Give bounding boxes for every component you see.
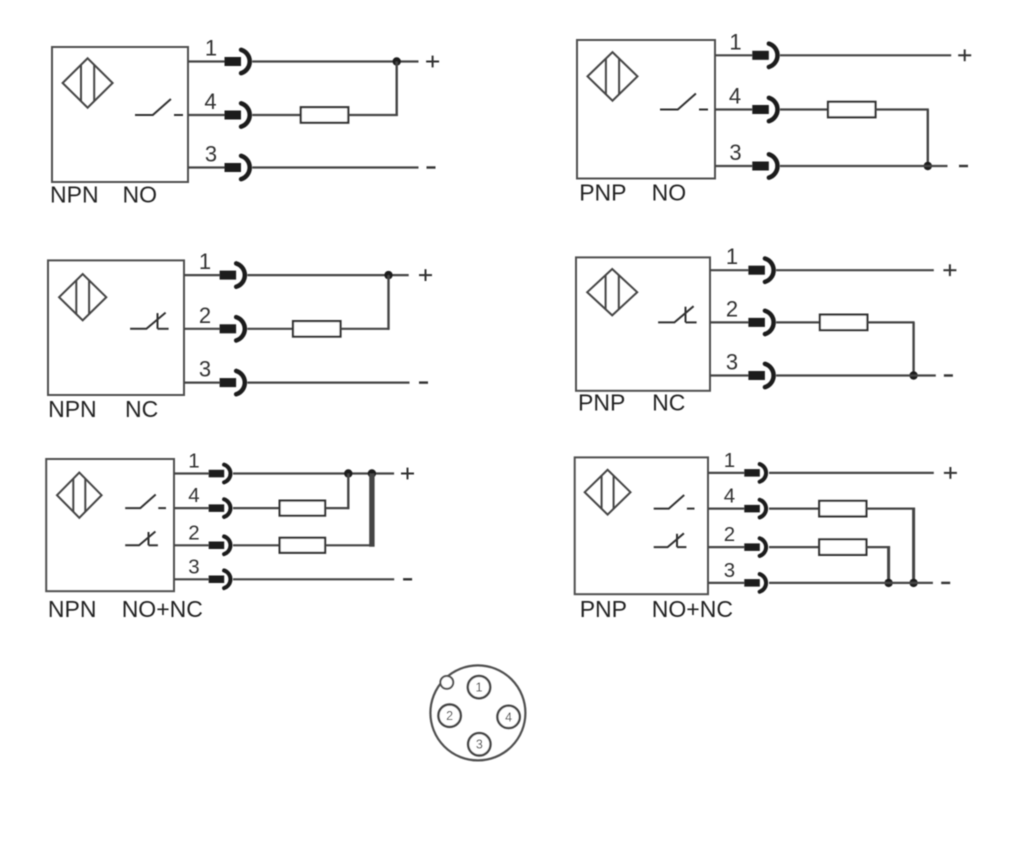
wire pin 4 (U1 output) xyxy=(188,114,225,116)
svg-text:NPN: NPN xyxy=(48,596,97,622)
wire pin 1 (U3 +V) xyxy=(184,274,220,276)
junction node B on wire 1 xyxy=(368,469,376,477)
wire pin 3 (U2 0V) xyxy=(715,165,752,167)
junction node on wire 1 xyxy=(393,57,401,65)
connector plug pin 3 (U1) xyxy=(225,163,242,172)
wire pin 2 (U6 NC output) xyxy=(708,546,744,548)
svg-text:3: 3 xyxy=(729,140,741,165)
- terminal (NPN NC) xyxy=(419,381,428,383)
junction node A on wire 1 xyxy=(344,469,352,477)
- terminal (NPN NO+NC) xyxy=(403,578,412,580)
wire R6 to node B (thick) xyxy=(325,544,372,546)
+ terminal (NPN NO) xyxy=(426,61,439,63)
switch NO S1 xyxy=(135,99,171,115)
sensor box U1 (NPN NO) xyxy=(52,47,188,182)
resistor load R1 xyxy=(301,107,349,123)
+ terminal (PNP NO) xyxy=(958,54,971,56)
proximity sensor symbol U3 xyxy=(59,274,106,320)
svg-text:3: 3 xyxy=(476,738,483,752)
pin 3 of J1 xyxy=(468,733,490,755)
svg-text:NPN: NPN xyxy=(50,182,99,208)
svg-text:1: 1 xyxy=(726,244,738,269)
svg-text:4: 4 xyxy=(729,84,741,109)
connector plug pin 1 (U5) xyxy=(209,470,225,478)
wire pin 1 (U4 +V) xyxy=(710,269,748,271)
wire pin 3 (U6 0V) xyxy=(708,582,744,584)
connector plug pin 3 (U5) xyxy=(209,576,225,584)
svg-text:4: 4 xyxy=(724,485,735,508)
switch NO S6a xyxy=(654,495,685,509)
sensor box U2 (PNP NO) xyxy=(577,40,715,179)
wire pin 4 (U5 NO output) xyxy=(174,507,209,509)
svg-text:3: 3 xyxy=(199,357,211,382)
svg-text:PNP: PNP xyxy=(580,596,627,622)
connector plug pin 4 (U6) xyxy=(744,505,760,513)
wire pin 1 (U1 +V) xyxy=(188,60,225,62)
svg-text:1: 1 xyxy=(476,681,483,695)
connector plug pin 1 (U3) xyxy=(220,271,237,280)
switch NC S5b xyxy=(125,532,155,546)
connector plug pin 2 (U3) xyxy=(220,324,237,333)
pin 2 of J1 xyxy=(438,705,460,727)
connector plug pin 1 (U2) xyxy=(752,51,769,60)
resistor load R5 xyxy=(280,501,326,516)
connector plug pin 3 (U2) xyxy=(752,162,769,171)
wire pin 4 (U2 output) xyxy=(715,108,752,110)
sensor box U4 (PNP NC) xyxy=(576,257,710,390)
svg-text:4: 4 xyxy=(188,484,199,507)
junction node on wire 3 (R8) xyxy=(884,579,892,587)
connector plug pin 4 (U5) xyxy=(209,504,225,512)
resistor load R7 xyxy=(819,501,866,517)
+ terminal (NPN NO+NC) xyxy=(401,473,414,475)
sensor box U6 (PNP NO+NC) xyxy=(575,457,708,594)
- terminal (PNP NC) xyxy=(944,374,953,376)
wire pin 4 (U6 NO output) xyxy=(708,508,744,510)
wire pin 2 (U4 output) xyxy=(710,321,748,323)
svg-text:PNP: PNP xyxy=(578,390,625,416)
svg-text:3: 3 xyxy=(205,142,217,167)
M12 connector face J1 xyxy=(430,665,525,760)
wire R2 to wire 3 xyxy=(876,108,929,110)
svg-text:1: 1 xyxy=(199,249,211,274)
proximity sensor symbol U6 xyxy=(585,470,631,515)
proximity sensor symbol U4 xyxy=(587,269,637,315)
svg-text:NC: NC xyxy=(652,390,685,416)
switch NO S5a xyxy=(125,495,156,509)
connector plug pin 3 (U4) xyxy=(748,371,765,380)
wire R7 to wire 3 xyxy=(866,508,915,510)
svg-text:2: 2 xyxy=(726,296,738,321)
svg-text:NO+NC: NO+NC xyxy=(122,596,203,622)
wire pin 2 (U3 output) xyxy=(184,328,220,330)
switch NO S2 xyxy=(660,94,696,110)
svg-text:PNP: PNP xyxy=(579,180,626,206)
junction node on wire 1 xyxy=(384,271,392,279)
svg-text:NC: NC xyxy=(125,396,158,422)
resistor load R8 xyxy=(819,539,866,555)
connector plug pin 2 (U5) xyxy=(209,542,225,550)
resistor load R6 xyxy=(280,538,326,553)
connector plug pin 1 (U4) xyxy=(748,266,765,275)
pin 4 of J1 xyxy=(497,706,519,728)
sensor box U5 (NPN NO+NC) xyxy=(46,459,174,591)
wire pin 1 (U5 +V) xyxy=(174,472,209,474)
svg-text:1: 1 xyxy=(205,36,217,61)
proximity sensor symbol U2 xyxy=(588,52,638,101)
switch NC S3 xyxy=(130,313,166,329)
junction node on wire 3 xyxy=(909,371,917,379)
wire R3 to node xyxy=(340,328,389,330)
svg-text:NPN: NPN xyxy=(48,396,97,422)
svg-text:2: 2 xyxy=(446,709,453,723)
wire pin 1 (U6 +V) xyxy=(708,472,744,474)
svg-text:4: 4 xyxy=(505,710,512,724)
proximity sensor symbol U1 xyxy=(63,58,113,107)
resistor load R3 xyxy=(293,321,341,337)
pin 1 of J1 xyxy=(468,676,490,698)
resistor load R2 xyxy=(828,102,876,118)
proximity sensor symbol U5 xyxy=(57,473,102,518)
- terminal (PNP NO+NC) xyxy=(941,582,950,584)
connector plug pin 3 (U3) xyxy=(220,378,237,387)
connector plug pin 1 (U6) xyxy=(744,469,760,477)
connector plug pin 1 (U1) xyxy=(225,57,242,66)
wire pin 3 (U4 0V) xyxy=(710,374,748,376)
wire pin 2 (U5 NC output) xyxy=(174,544,209,546)
connector plug pin 3 (U6) xyxy=(744,579,760,587)
svg-text:3: 3 xyxy=(724,559,735,582)
svg-text:3: 3 xyxy=(726,350,738,375)
+ terminal (PNP NC) xyxy=(943,269,956,271)
resistor load R4 xyxy=(820,315,868,331)
switch NC S4 xyxy=(658,306,694,322)
svg-text:1: 1 xyxy=(729,29,741,54)
connector plug pin 2 (U6) xyxy=(744,543,760,551)
+ terminal (PNP NO+NC) xyxy=(944,472,957,474)
svg-text:1: 1 xyxy=(188,450,199,473)
svg-text:1: 1 xyxy=(724,449,735,472)
svg-text:NO+NC: NO+NC xyxy=(652,596,733,622)
wire R8 to wire 3 xyxy=(866,546,890,548)
wire R4 to wire 3 xyxy=(867,321,914,323)
svg-text:2: 2 xyxy=(188,521,199,544)
svg-text:NO: NO xyxy=(123,182,158,208)
connector plug pin 4 (U2) xyxy=(752,105,769,114)
+ terminal (NPN NC) xyxy=(419,274,432,276)
wire pin 3 (U5 0V) xyxy=(174,578,209,580)
switch NC S6b xyxy=(654,533,684,547)
connector plug pin 2 (U4) xyxy=(748,318,765,327)
wire R1 to node xyxy=(348,114,397,116)
- terminal (NPN NO) xyxy=(427,166,436,168)
wire R5 to node A xyxy=(325,507,349,509)
svg-text:NO: NO xyxy=(652,180,687,206)
connector plug pin 4 (U1) xyxy=(225,111,242,120)
wire pin 1 (U2 +V) xyxy=(715,54,752,56)
junction node on wire 3 (R7) xyxy=(909,579,917,587)
junction node on wire 3 xyxy=(924,162,932,170)
wire pin 3 (U1 0V) xyxy=(188,166,225,168)
- terminal (PNP NO) xyxy=(959,165,968,167)
wire pin 3 (U3 0V) xyxy=(184,382,220,384)
svg-text:2: 2 xyxy=(724,523,735,546)
svg-text:3: 3 xyxy=(188,555,199,578)
sensor box U3 (NPN NC) xyxy=(48,260,184,395)
svg-text:2: 2 xyxy=(199,303,211,328)
keying notch on J1 xyxy=(440,676,453,689)
svg-text:4: 4 xyxy=(204,89,216,114)
